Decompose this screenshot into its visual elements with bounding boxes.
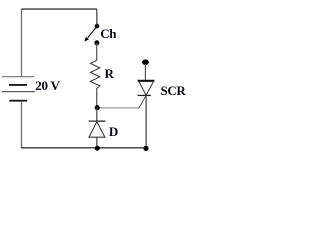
wire SCR cathode lead — [145, 95, 147, 147]
junction dot diode-bottom wire — [95, 146, 100, 151]
wire top horizontal — [22, 8, 97, 10]
label 20 V — [35, 79, 59, 92]
junction dot SCR-bottom wire — [143, 146, 148, 151]
SCR anode bar thick — [138, 80, 155, 82]
wire resistor to node — [96, 89, 98, 107]
node junction dot (R / D / gate) — [95, 105, 100, 110]
wire gate diagonal to SCR — [139, 95, 146, 108]
wire left rail upper — [21, 9, 23, 77]
wire left rail lower — [21, 101, 23, 148]
battery BT1 long plate lower — [2, 91, 35, 93]
wire node to diode — [96, 108, 98, 121]
wire switch to resistor — [96, 43, 98, 61]
switch Ch blade — [88, 27, 97, 38]
label R — [105, 67, 114, 80]
diode D triangle — [89, 122, 105, 137]
diode D cathode bar — [89, 120, 106, 122]
SCR triangle sides — [139, 82, 153, 95]
wire SCR anode lead — [144, 64, 146, 80]
battery BT1 short thick plate upper — [9, 84, 27, 86]
switch Ch top terminal dot — [95, 24, 100, 29]
battery BT1 short thick plate bottom — [9, 100, 27, 102]
switch Ch bottom terminal dot — [94, 40, 99, 45]
label SCR — [161, 84, 186, 97]
wire gate horizontal — [97, 107, 139, 109]
wire diode to bottom — [96, 137, 98, 148]
wire switch feed — [96, 9, 98, 25]
wire bottom horizontal — [21, 147, 146, 149]
label D — [109, 125, 118, 138]
battery BT1 long plate top — [2, 76, 34, 78]
label Ch — [100, 27, 116, 40]
SCR anode terminal dot — [142, 59, 149, 65]
SCR cathode bar — [138, 94, 151, 96]
resistor R zigzag — [90, 61, 99, 89]
switch Ch blade arrowhead — [84, 37, 89, 42]
